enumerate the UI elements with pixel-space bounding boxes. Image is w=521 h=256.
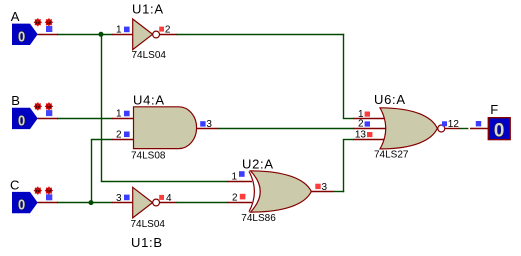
svg-text:U4:A: U4:A [133, 92, 165, 107]
pin stub U6 pin1 [353, 118, 385, 120]
inverter U1:B [133, 187, 160, 218]
pin indicator square U6 pin1 [365, 112, 370, 117]
input logicstate C [12, 192, 38, 214]
svg-text:2: 2 [232, 192, 238, 203]
toggle gear icons C [34, 187, 53, 201]
svg-text:2: 2 [165, 25, 171, 36]
wire U6 output to probe F [459, 128, 469, 130]
pin stub U4 output pin3 [196, 128, 218, 130]
pin indicator square U1:B input [124, 195, 130, 201]
pin stub input C [38, 202, 59, 204]
svg-text:U2:A: U2:A [242, 157, 274, 172]
wire to U6 pin13 [343, 139, 354, 141]
pin stub U1:A output pin2 [160, 34, 177, 36]
pin stub input A [38, 34, 59, 36]
pin stub input B [38, 118, 59, 120]
wire U4 output to U6 pin2 [218, 128, 354, 130]
pin indicator square U4 pin1 [124, 111, 130, 117]
wire C horizontal [57, 202, 113, 204]
svg-text:C: C [10, 177, 20, 192]
input logicstate B [12, 108, 38, 130]
svg-text:2: 2 [116, 130, 122, 141]
svg-text:3: 3 [206, 119, 212, 130]
pin stub U6 pin13 [353, 139, 385, 141]
svg-text:74LS04: 74LS04 [131, 219, 166, 230]
svg-text:U6:A: U6:A [374, 92, 406, 107]
pin indicator square U6 pin13 [367, 132, 372, 137]
svg-text:0: 0 [18, 198, 25, 214]
svg-text:3: 3 [322, 182, 328, 193]
svg-text:0: 0 [494, 120, 505, 141]
svg-text:U1:A: U1:A [132, 2, 164, 17]
pin stub U2 pin1 [227, 181, 252, 183]
pin stub U2 output pin3 [311, 191, 333, 193]
pin indicator square U1:A input [124, 27, 130, 33]
nor gate U6:A [380, 108, 445, 149]
wire U1:B output to U2 pin2 [176, 202, 228, 204]
svg-text:12: 12 [448, 119, 460, 130]
pin indicator square U4 pin2 [124, 132, 130, 138]
pin indicator square U2 pin2 [240, 194, 246, 200]
wire B horizontal [57, 118, 113, 120]
toggle gear icons A [34, 18, 53, 32]
svg-text:74LS27: 74LS27 [374, 150, 409, 161]
and gate U4:A [134, 107, 197, 149]
svg-text:2: 2 [358, 119, 364, 130]
pin stub U1:B output pin4 [160, 202, 177, 204]
wire to U6 pin1 [343, 118, 354, 120]
pin indicator square U1:A output [159, 27, 164, 32]
svg-text:A: A [11, 9, 20, 24]
pin stub probe F [470, 128, 489, 130]
svg-text:13: 13 [355, 130, 367, 141]
inverter U1:A [133, 19, 160, 50]
svg-text:3: 3 [116, 193, 122, 204]
node C junction [89, 200, 94, 205]
pin indicator square U4 output [200, 121, 205, 126]
pin stub U1:B input pin3 [112, 202, 133, 204]
svg-text:74LS86: 74LS86 [241, 213, 276, 224]
svg-text:0: 0 [18, 113, 25, 129]
node A junction [99, 32, 104, 37]
wire U1:A output horizontal [176, 34, 344, 36]
svg-text:B: B [11, 93, 20, 108]
svg-text:1: 1 [116, 25, 122, 36]
svg-text:F: F [490, 102, 499, 117]
svg-text:0: 0 [18, 29, 25, 45]
wire U1:A output vertical down [343, 34, 345, 119]
pin stub U6 output pin12 [445, 128, 459, 130]
svg-text:74LS04: 74LS04 [132, 50, 167, 61]
wire C vertical up [91, 140, 93, 203]
pin indicator square U2 output [315, 184, 320, 189]
pin stub U6 pin2 [353, 128, 387, 130]
logic probe F [488, 118, 510, 142]
svg-text:74LS08: 74LS08 [131, 151, 166, 162]
pin indicator square probe F [476, 121, 481, 126]
pin stub U1:A input pin1 [112, 34, 133, 36]
pin indicator square U6 output [442, 121, 447, 126]
wire A vertical from junction down [101, 35, 103, 182]
pin indicator square U2 pin1 [239, 171, 245, 177]
svg-text:U1:B: U1:B [131, 235, 163, 250]
toggle gear icons B [34, 102, 53, 116]
input logicstate A [12, 24, 38, 46]
wire XOR output horizontal [333, 191, 345, 193]
pin stub U4 pin2 [112, 139, 134, 141]
svg-text:4: 4 [166, 193, 172, 204]
wire C to U4 pin2 [91, 139, 113, 141]
svg-text:1: 1 [231, 171, 237, 182]
pin indicator square U1:B output [159, 195, 164, 200]
wire XOR output vertical up [343, 140, 345, 193]
xor gate U2:A [249, 171, 311, 212]
pin stub U2 pin2 [227, 202, 252, 204]
pin stub U4 pin1 [112, 118, 134, 120]
wire A horizontal [57, 34, 113, 36]
svg-text:1: 1 [116, 109, 122, 120]
pin indicator square U6 pin2 [365, 121, 370, 126]
wire A to XOR pin1 [101, 181, 228, 183]
